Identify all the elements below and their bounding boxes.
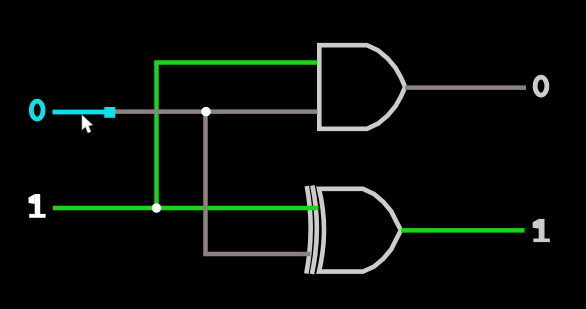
node label: input B value 1 (white digit) — [29, 194, 46, 218]
node label: input A value 0 (cyan digit) — [31, 101, 43, 119]
wire green horizontal top (to AND input) — [154, 60, 317, 65]
XOR input arc 2 — [312, 186, 317, 275]
wire cyan input stub (selected input A) — [53, 110, 106, 115]
wire gray horizontal top (A to AND lower input) — [115, 109, 318, 114]
wire green vertical (junction up) — [154, 63, 159, 211]
mouse cursor — [81, 114, 101, 138]
node label: AND output value 0 (gray digit) — [535, 77, 547, 95]
node cyan drag handle square — [104, 107, 115, 118]
node junction on gray net — [201, 107, 211, 117]
node label: XOR output value 1 (gray digit) — [533, 219, 550, 242]
XOR input arc 1 — [306, 186, 310, 274]
wire green output of XOR — [401, 228, 525, 233]
XOR body — [319, 189, 401, 272]
node junction on green net — [152, 203, 162, 213]
AND gate U1 — [319, 45, 405, 129]
wire gray vertical (junction down) — [203, 112, 208, 254]
wire: green net (input B = 1) — [53, 63, 525, 231]
wire: gray net (input A = 0) — [115, 88, 526, 254]
wire green horizontal bottom (B to XOR input) — [53, 206, 319, 211]
wire gray output of AND — [405, 85, 526, 90]
XOR gate U2 — [306, 186, 401, 275]
wire gray horizontal bottom (to XOR lower input) — [203, 252, 310, 257]
